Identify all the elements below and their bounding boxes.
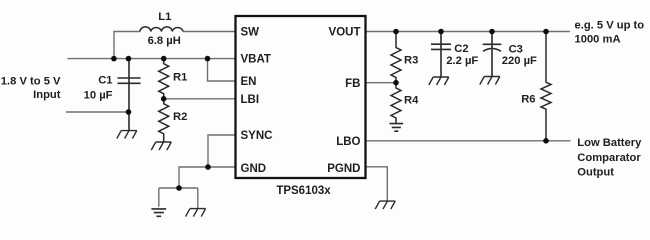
node: L1/input junction — [111, 56, 117, 62]
ground (chassis) under R2 — [151, 142, 171, 150]
svg-text:2.2 µF: 2.2 µF — [446, 55, 478, 67]
wire: VOUT rail — [366, 31, 571, 33]
ground (chassis) under C1 — [117, 131, 137, 139]
svg-text:1000 mA: 1000 mA — [575, 33, 621, 45]
wire: FB — [366, 82, 397, 84]
ground (chassis) under C2 — [429, 77, 449, 85]
node: SYNC/GND — [205, 164, 211, 170]
svg-text:C3: C3 — [509, 44, 523, 56]
wire: SYNC elbow — [208, 135, 236, 167]
resistor R4 — [391, 83, 401, 124]
svg-text:VOUT: VOUT — [329, 27, 361, 39]
svg-text:FB: FB — [345, 78, 360, 90]
node: R1/R2 LBI — [161, 96, 167, 102]
svg-text:GND: GND — [241, 163, 267, 175]
svg-text:VBAT: VBAT — [241, 54, 271, 66]
svg-text:R2: R2 — [173, 111, 187, 123]
ground (chassis) bottom-center — [186, 209, 206, 217]
resistor R1 — [159, 59, 169, 99]
resistor R2 — [159, 99, 169, 142]
ground (earth) under R4 — [390, 124, 404, 132]
capacitor C2 — [431, 32, 451, 78]
wire: EN elbow from VBAT node — [208, 59, 236, 81]
resistor R6 — [541, 32, 551, 141]
ground (chassis) under PGND — [375, 201, 395, 209]
node: R3/R4 FB — [393, 80, 399, 86]
capacitor C1 — [118, 59, 141, 131]
inductor L1 — [140, 27, 183, 32]
node: C1 bottom — [126, 109, 132, 115]
wire: LBO line — [366, 140, 571, 142]
node: ground cluster — [176, 185, 182, 191]
svg-text:SYNC: SYNC — [241, 130, 273, 142]
svg-text:Input: Input — [33, 89, 61, 101]
node: C1 top — [126, 56, 132, 62]
svg-text:R3: R3 — [404, 54, 418, 66]
node: R1 top — [161, 56, 167, 62]
wire: GND to ground cluster — [159, 167, 236, 209]
svg-text:10 µF: 10 µF — [84, 90, 113, 102]
ground (chassis) under C3 — [480, 77, 500, 85]
svg-text:e.g. 5 V up to: e.g. 5 V up to — [575, 19, 645, 31]
wire: LBI line from R1/R2 node — [164, 98, 236, 100]
svg-text:6.8 µH: 6.8 µH — [148, 35, 181, 47]
svg-text:R6: R6 — [521, 93, 535, 105]
svg-text:C2: C2 — [454, 43, 468, 55]
node: C2 top — [438, 29, 444, 35]
svg-text:LBO: LBO — [336, 136, 360, 148]
svg-text:R1: R1 — [173, 72, 187, 84]
svg-text:LBI: LBI — [241, 94, 260, 106]
wire: SW to inductor and down to input node — [114, 32, 236, 59]
svg-text:Comparator: Comparator — [577, 152, 641, 164]
svg-text:Low Battery: Low Battery — [577, 137, 642, 149]
svg-text:220 µF: 220 µF — [502, 55, 537, 67]
node: R3 top — [393, 29, 399, 35]
wire: lower input line — [66, 111, 129, 113]
svg-text:C1: C1 — [98, 75, 112, 87]
node: C3 top — [489, 29, 495, 35]
svg-text:R4: R4 — [404, 95, 419, 107]
svg-text:TPS6103x: TPS6103x — [276, 185, 331, 197]
node: EN tap — [205, 56, 211, 62]
node: R6/LBO — [543, 138, 549, 144]
wire: upper input line to VBAT — [68, 58, 236, 60]
svg-text:Output: Output — [577, 167, 614, 179]
svg-text:1.8 V to 5 V: 1.8 V to 5 V — [1, 76, 61, 88]
capacitor C3 (polarized) — [483, 32, 502, 77]
IC U1 TPS6103x box — [236, 16, 366, 178]
node: R6 top — [543, 29, 549, 35]
resistor R3 — [391, 32, 401, 83]
svg-text:EN: EN — [241, 76, 257, 88]
svg-text:SW: SW — [241, 27, 260, 39]
ground (earth) bottom-left — [151, 209, 166, 216]
svg-text:L1: L1 — [158, 11, 171, 23]
svg-text:PGND: PGND — [327, 163, 360, 175]
wire: PGND elbow — [366, 167, 388, 201]
